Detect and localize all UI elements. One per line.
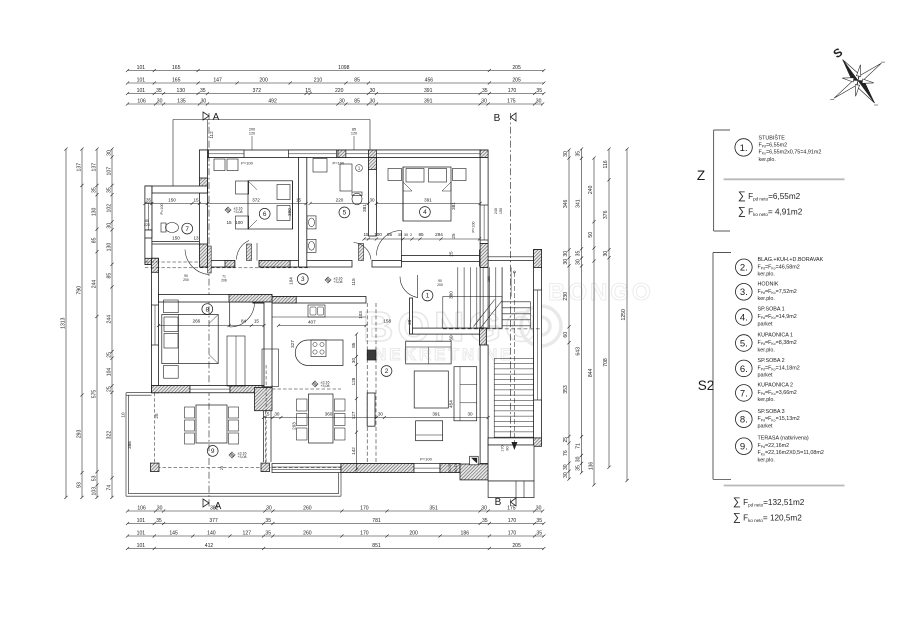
svg-text:∑ Fko neto= 120,5m2: ∑ Fko neto= 120,5m2 <box>733 512 802 524</box>
svg-text:P=100: P=100 <box>472 221 476 232</box>
svg-text:150: 150 <box>168 198 176 203</box>
svg-text:35: 35 <box>156 518 162 524</box>
svg-text:60: 60 <box>563 332 569 338</box>
svg-text:244: 244 <box>92 280 98 289</box>
svg-text:8: 8 <box>206 306 210 313</box>
svg-text:200: 200 <box>183 278 189 282</box>
svg-text:7: 7 <box>185 226 189 233</box>
svg-text:Z: Z <box>697 168 705 183</box>
svg-text:102: 102 <box>107 204 113 213</box>
svg-text:240: 240 <box>588 185 594 194</box>
svg-text:35: 35 <box>482 518 488 524</box>
svg-text:30: 30 <box>274 412 280 417</box>
svg-text:116: 116 <box>603 160 609 168</box>
svg-text:NEKRETNINE: NEKRETNINE <box>374 345 515 364</box>
svg-text:ker.plo.: ker.plo. <box>758 457 775 463</box>
svg-text:386: 386 <box>127 441 132 449</box>
svg-text:120: 120 <box>351 132 357 136</box>
svg-text:71: 71 <box>576 443 582 449</box>
svg-text:101: 101 <box>137 65 146 71</box>
svg-text:30: 30 <box>563 472 569 478</box>
svg-text:205: 205 <box>512 77 521 83</box>
svg-text:ker.plo.: ker.plo. <box>758 296 775 302</box>
svg-text:147: 147 <box>213 77 222 83</box>
svg-text:8.: 8. <box>740 415 748 426</box>
svg-text:B: B <box>495 497 502 508</box>
svg-text:130: 130 <box>107 243 113 252</box>
svg-text:30: 30 <box>536 505 542 511</box>
svg-text:30: 30 <box>576 259 582 265</box>
svg-text:165: 165 <box>172 65 181 71</box>
svg-text:30: 30 <box>201 98 207 104</box>
svg-text:15: 15 <box>305 88 311 94</box>
svg-text:25: 25 <box>563 437 569 443</box>
svg-text:30: 30 <box>404 233 408 237</box>
svg-text:35: 35 <box>92 187 98 193</box>
svg-text:85: 85 <box>351 342 356 348</box>
svg-text:381: 381 <box>451 202 456 210</box>
svg-text:6.: 6. <box>740 364 748 375</box>
svg-text:85: 85 <box>387 232 393 237</box>
svg-text:30: 30 <box>576 456 582 462</box>
svg-text:1: 1 <box>426 293 430 300</box>
svg-text:851: 851 <box>372 543 381 549</box>
svg-text:346: 346 <box>563 199 569 208</box>
svg-text:353: 353 <box>563 385 569 394</box>
svg-text:90: 90 <box>506 446 510 450</box>
svg-text:30: 30 <box>563 259 569 265</box>
svg-text:391: 391 <box>424 198 432 203</box>
svg-text:9.: 9. <box>740 442 748 453</box>
svg-text:240: 240 <box>494 208 498 214</box>
svg-text:790: 790 <box>77 286 83 295</box>
svg-text:7.: 7. <box>740 388 748 399</box>
svg-text:KUPAONICA 2: KUPAONICA 2 <box>758 383 794 389</box>
svg-text:130: 130 <box>177 88 186 94</box>
svg-text:+3,08: +3,08 <box>233 210 242 214</box>
svg-text:25: 25 <box>451 233 456 239</box>
svg-text:35: 35 <box>200 88 206 94</box>
svg-text:128: 128 <box>351 377 356 385</box>
svg-text:35: 35 <box>576 465 582 471</box>
svg-text:25: 25 <box>107 386 113 392</box>
svg-text:A: A <box>213 112 220 123</box>
svg-text:85: 85 <box>92 237 98 243</box>
svg-text:376: 376 <box>603 210 609 219</box>
svg-text:170: 170 <box>360 505 369 511</box>
svg-text:5: 5 <box>267 412 270 417</box>
svg-text:30: 30 <box>266 505 272 511</box>
svg-text:30: 30 <box>157 505 163 511</box>
svg-text:BONGO: BONGO <box>363 303 542 350</box>
svg-text:100: 100 <box>374 232 382 237</box>
svg-text:380: 380 <box>449 291 454 299</box>
svg-text:3.: 3. <box>740 287 748 298</box>
svg-text:30: 30 <box>107 223 113 229</box>
svg-text:391: 391 <box>424 88 433 94</box>
svg-text:+3,08: +3,08 <box>320 384 329 388</box>
svg-text:FKo=22,16m2X0,5=11,08m2: FKo=22,16m2X0,5=11,08m2 <box>758 450 824 456</box>
svg-text:175: 175 <box>507 505 516 511</box>
svg-text:30,15: 30,15 <box>454 464 458 473</box>
svg-text:165: 165 <box>172 77 181 83</box>
svg-text:FKo=6,55m2x0,75=4,91m2: FKo=6,55m2x0,75=4,91m2 <box>759 150 822 156</box>
svg-text:643: 643 <box>576 347 582 356</box>
svg-text:391: 391 <box>432 412 440 417</box>
svg-text:STUBIŠTE: STUBIŠTE <box>759 135 786 142</box>
svg-text:4: 4 <box>423 209 427 216</box>
svg-text:104: 104 <box>107 368 113 377</box>
svg-text:206: 206 <box>221 279 227 283</box>
svg-text:186: 186 <box>461 530 470 536</box>
svg-text:85: 85 <box>418 232 424 237</box>
svg-text:30: 30 <box>339 98 345 104</box>
svg-text:5: 5 <box>343 210 347 217</box>
svg-text:35: 35 <box>265 530 271 536</box>
svg-text:280: 280 <box>487 276 491 282</box>
svg-text:372: 372 <box>253 88 262 94</box>
svg-text:30: 30 <box>481 98 487 104</box>
svg-text:+3,08: +3,08 <box>333 280 342 284</box>
svg-text:35: 35 <box>536 88 542 94</box>
svg-text:ker.plo.: ker.plo. <box>758 272 775 278</box>
svg-text:30: 30 <box>351 358 356 364</box>
svg-text:142: 142 <box>351 447 356 455</box>
svg-text:KUPAONICA 1: KUPAONICA 1 <box>758 333 794 339</box>
svg-text:35: 35 <box>576 151 582 157</box>
svg-text:391: 391 <box>424 98 433 104</box>
svg-text:407: 407 <box>308 320 316 325</box>
svg-text:35: 35 <box>265 518 271 524</box>
svg-text:+3,08: +3,08 <box>237 455 246 459</box>
svg-text:137: 137 <box>77 163 83 172</box>
svg-text:35: 35 <box>576 251 582 257</box>
svg-text:170: 170 <box>360 530 369 536</box>
svg-text:30: 30 <box>107 150 113 156</box>
svg-text:844: 844 <box>588 368 594 377</box>
svg-text:260: 260 <box>303 530 312 536</box>
svg-text:130: 130 <box>92 207 98 216</box>
svg-text:∑ Fpd neto=132,51m2: ∑ Fpd neto=132,51m2 <box>733 496 805 508</box>
svg-text:136: 136 <box>589 462 595 471</box>
svg-text:175: 175 <box>507 98 516 104</box>
svg-text:103: 103 <box>92 487 98 496</box>
svg-text:20: 20 <box>407 319 412 325</box>
svg-text:30: 30 <box>378 412 384 417</box>
svg-text:35: 35 <box>146 198 152 203</box>
svg-text:35: 35 <box>398 233 402 237</box>
svg-text:30: 30 <box>370 98 376 104</box>
svg-text:35: 35 <box>536 530 542 536</box>
svg-text:9: 9 <box>211 448 215 455</box>
svg-text:100: 100 <box>235 220 243 225</box>
svg-text:4.: 4. <box>740 312 748 323</box>
svg-text:∑ Fko neto= 4,91m2: ∑ Fko neto= 4,91m2 <box>738 206 803 218</box>
svg-text:220: 220 <box>336 198 344 203</box>
svg-text:ker.plo.: ker.plo. <box>759 157 776 163</box>
svg-text:1098: 1098 <box>338 65 349 71</box>
svg-text:101: 101 <box>137 88 146 94</box>
svg-text:30: 30 <box>481 505 487 511</box>
svg-text:708: 708 <box>603 358 609 367</box>
svg-text:137: 137 <box>92 163 98 172</box>
svg-text:101: 101 <box>137 530 146 536</box>
svg-text:106: 106 <box>137 98 146 104</box>
svg-text:parket: parket <box>758 321 773 327</box>
svg-text:30: 30 <box>467 412 473 417</box>
svg-text:35: 35 <box>536 518 542 524</box>
svg-text:220: 220 <box>144 223 150 227</box>
svg-text:30: 30 <box>536 98 542 104</box>
svg-text:244: 244 <box>107 315 113 324</box>
svg-text:103: 103 <box>358 311 363 319</box>
svg-text:15: 15 <box>226 220 232 225</box>
svg-text:84: 84 <box>241 319 247 324</box>
svg-text:parket: parket <box>758 424 773 430</box>
svg-text:A: A <box>215 501 222 512</box>
svg-text:S2: S2 <box>698 378 715 393</box>
svg-text:30: 30 <box>563 251 569 257</box>
svg-text:372: 372 <box>252 198 260 203</box>
svg-text:2.: 2. <box>740 263 748 274</box>
svg-text:150: 150 <box>499 208 503 214</box>
svg-text:P=100: P=100 <box>241 161 253 166</box>
svg-text:3: 3 <box>301 276 305 283</box>
svg-text:BLAG.+KUH.+D.BORAVAK: BLAG.+KUH.+D.BORAVAK <box>758 257 824 263</box>
svg-text:15: 15 <box>193 198 199 203</box>
svg-text:390: 390 <box>287 208 292 216</box>
svg-text:170: 170 <box>508 518 517 524</box>
svg-text:230: 230 <box>563 292 569 301</box>
svg-text:381: 381 <box>362 204 367 212</box>
svg-text:575: 575 <box>92 390 98 399</box>
svg-text:35: 35 <box>156 88 162 94</box>
svg-text:327: 327 <box>290 340 295 348</box>
svg-text:ker.plo.: ker.plo. <box>758 347 775 353</box>
svg-text:454: 454 <box>449 400 454 408</box>
svg-text:140: 140 <box>207 530 216 536</box>
svg-text:HODNIK: HODNIK <box>758 282 779 288</box>
svg-text:ker.plo.: ker.plo. <box>758 397 775 403</box>
svg-text:158: 158 <box>383 319 391 324</box>
svg-text:112: 112 <box>209 131 214 139</box>
svg-text:53: 53 <box>92 475 98 481</box>
svg-text:341: 341 <box>576 199 582 208</box>
svg-text:101: 101 <box>137 518 146 524</box>
svg-text:35: 35 <box>107 187 113 193</box>
svg-text:10: 10 <box>120 412 125 418</box>
svg-text:360: 360 <box>325 412 333 417</box>
svg-text:30: 30 <box>370 88 376 94</box>
svg-text:5.: 5. <box>740 338 748 349</box>
svg-text:205: 205 <box>512 65 521 71</box>
svg-text:294: 294 <box>435 232 443 237</box>
svg-text:120: 120 <box>249 132 255 136</box>
svg-text:parket: parket <box>758 373 773 379</box>
svg-text:85: 85 <box>354 77 360 83</box>
svg-text:1313: 1313 <box>61 317 67 328</box>
svg-text:30: 30 <box>563 151 569 157</box>
svg-text:∑ Fpd neto=6,55m2: ∑ Fpd neto=6,55m2 <box>738 190 801 202</box>
svg-text:SP.SOBA 3: SP.SOBA 3 <box>758 409 785 415</box>
svg-text:492: 492 <box>268 98 277 104</box>
svg-text:50: 50 <box>588 232 594 238</box>
svg-text:220: 220 <box>335 88 344 94</box>
svg-text:145: 145 <box>169 530 178 536</box>
svg-text:200: 200 <box>409 530 418 536</box>
svg-text:200: 200 <box>259 77 268 83</box>
svg-text:377: 377 <box>209 518 218 524</box>
svg-text:104: 104 <box>289 277 294 285</box>
svg-text:15: 15 <box>254 319 260 324</box>
svg-text:P=100: P=100 <box>333 161 345 166</box>
svg-text:25: 25 <box>220 466 224 470</box>
svg-text:76: 76 <box>563 450 569 456</box>
svg-text:30: 30 <box>603 251 609 257</box>
svg-text:170: 170 <box>501 445 505 451</box>
svg-text:106: 106 <box>137 505 146 511</box>
svg-text:322: 322 <box>107 431 113 440</box>
svg-text:205: 205 <box>512 543 521 549</box>
svg-text:85: 85 <box>107 273 113 279</box>
svg-text:135: 135 <box>177 98 186 104</box>
svg-text:127: 127 <box>243 530 252 536</box>
svg-text:456: 456 <box>425 77 434 83</box>
svg-text:B: B <box>494 113 501 124</box>
svg-text:35: 35 <box>482 88 488 94</box>
svg-text:13: 13 <box>193 236 199 241</box>
svg-text:6: 6 <box>263 211 267 218</box>
svg-text:P=100: P=100 <box>420 457 432 462</box>
svg-text:SP.SOBA 2: SP.SOBA 2 <box>758 358 785 364</box>
svg-text:SP.SOBA 1: SP.SOBA 1 <box>758 307 785 313</box>
svg-text:30: 30 <box>157 98 163 104</box>
svg-text:25: 25 <box>449 251 454 257</box>
svg-text:293: 293 <box>77 429 83 438</box>
svg-text:170: 170 <box>508 530 517 536</box>
svg-text:351: 351 <box>429 505 438 511</box>
svg-text:107: 107 <box>107 167 113 176</box>
svg-text:2: 2 <box>410 233 412 237</box>
svg-text:93: 93 <box>77 482 83 488</box>
svg-text:TERASA (natkrivena): TERASA (natkrivena) <box>758 436 809 442</box>
svg-text:74: 74 <box>107 485 113 491</box>
svg-text:15: 15 <box>363 232 369 237</box>
svg-text:85: 85 <box>354 98 360 104</box>
svg-text:30: 30 <box>563 464 569 470</box>
svg-text:115: 115 <box>351 278 356 286</box>
svg-text:101: 101 <box>137 77 146 83</box>
svg-text:260: 260 <box>303 505 312 511</box>
svg-text:15: 15 <box>296 198 302 203</box>
svg-text:60: 60 <box>449 335 454 341</box>
svg-text:1250: 1250 <box>621 309 627 320</box>
svg-text:2: 2 <box>385 368 389 375</box>
svg-text:170: 170 <box>508 88 517 94</box>
svg-text:30: 30 <box>369 198 375 203</box>
svg-text:127: 127 <box>351 411 356 419</box>
svg-text:781: 781 <box>372 518 381 524</box>
svg-text:150: 150 <box>172 236 180 241</box>
svg-text:1.: 1. <box>740 143 748 154</box>
svg-text:25: 25 <box>107 352 113 358</box>
svg-text:412: 412 <box>205 543 214 549</box>
svg-text:25: 25 <box>154 413 159 419</box>
svg-text:30,05: 30,05 <box>448 464 452 473</box>
svg-text:P=100: P=100 <box>160 203 164 214</box>
svg-text:203: 203 <box>291 422 296 430</box>
svg-text:210: 210 <box>314 77 323 83</box>
svg-text:266: 266 <box>193 319 201 324</box>
svg-text:200: 200 <box>437 283 443 287</box>
svg-text:101: 101 <box>137 543 146 549</box>
